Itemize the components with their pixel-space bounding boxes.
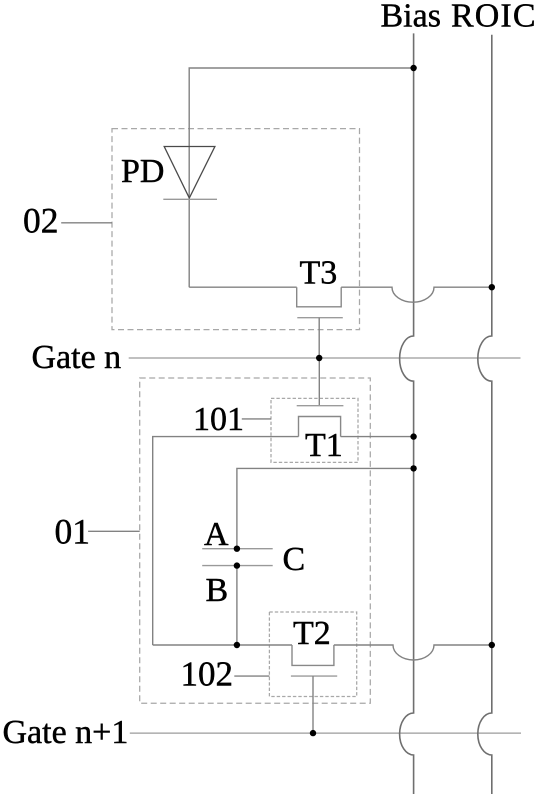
svg-text:A: A — [204, 516, 229, 553]
svg-text:101: 101 — [193, 401, 244, 438]
svg-text:C: C — [283, 541, 306, 578]
svg-text:T1: T1 — [305, 427, 343, 464]
svg-text:01: 01 — [55, 512, 91, 552]
svg-text:102: 102 — [181, 655, 234, 694]
svg-text:02: 02 — [23, 201, 59, 241]
svg-text:PD: PD — [121, 153, 164, 190]
svg-text:B: B — [206, 572, 229, 609]
svg-text:Bias: Bias — [381, 0, 441, 35]
svg-text:Gate n+1: Gate n+1 — [3, 714, 129, 751]
svg-text:ROIC: ROIC — [451, 0, 536, 35]
svg-text:T3: T3 — [300, 255, 338, 292]
svg-text:T2: T2 — [293, 615, 331, 652]
svg-text:Gate n: Gate n — [32, 339, 122, 376]
